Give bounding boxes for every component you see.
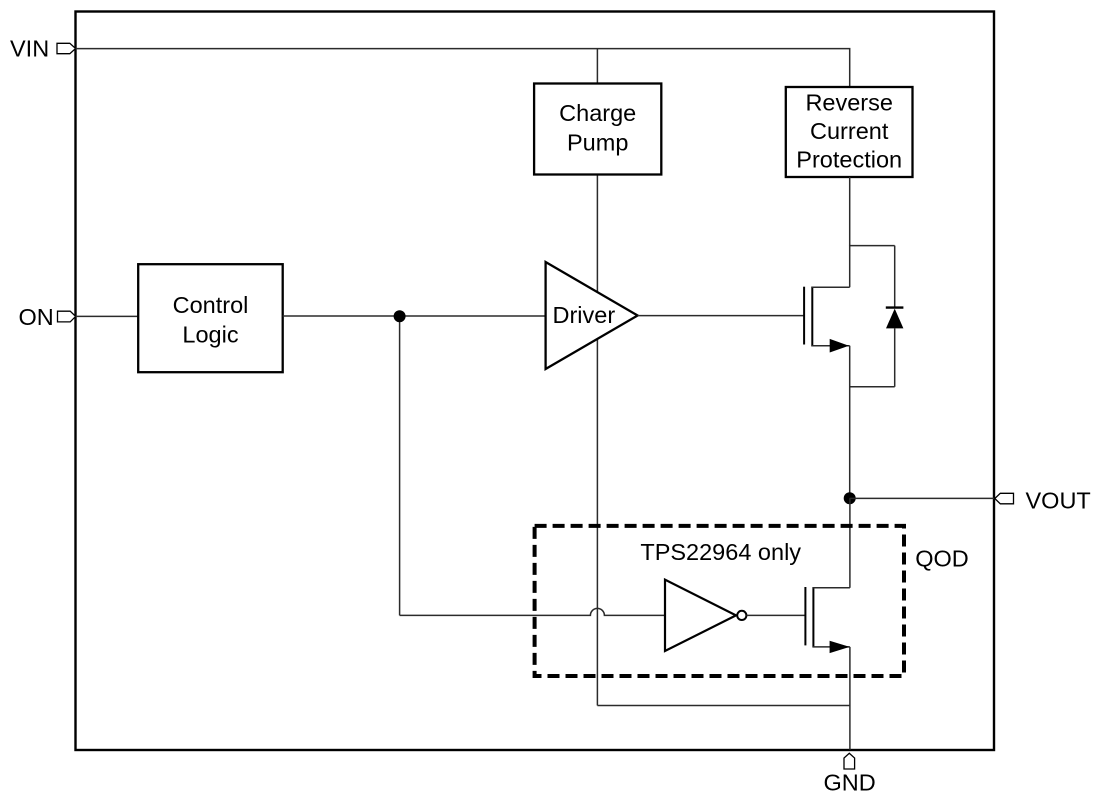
transistor Q1 pass FET	[804, 245, 850, 353]
block Reverse Current Protection	[786, 87, 913, 177]
transistor Q2 QOD FET	[805, 587, 850, 653]
pin ON	[19, 304, 76, 330]
wire charge pump rail down	[596, 175, 598, 706]
diode D1 body diode of Q1	[850, 246, 904, 387]
inverter U2	[665, 580, 746, 651]
op-amp U1 Driver	[546, 262, 638, 369]
wire charge pump feed	[596, 49, 598, 84]
svg-text:Protection: Protection	[796, 147, 902, 173]
wire VOUT node to Q2 drain	[849, 498, 851, 588]
svg-text:Reverse: Reverse	[805, 90, 893, 116]
svg-text:Control: Control	[173, 292, 249, 318]
pin VIN	[10, 36, 76, 62]
wire RCP to Q1 drain	[849, 177, 851, 246]
wire junction branch down	[399, 316, 401, 615]
svg-text:Current: Current	[810, 118, 889, 144]
svg-text:Pump: Pump	[567, 130, 628, 156]
wire VIN rail to RCP	[76, 49, 850, 87]
wire ON to Control Logic	[76, 315, 139, 317]
wire Control Logic to Driver	[283, 315, 546, 317]
block Charge Pump	[534, 84, 661, 175]
pin GND (ground)	[824, 753, 876, 795]
QOD dashed boundary	[535, 526, 904, 676]
svg-text:Charge: Charge	[559, 100, 636, 126]
svg-text:Logic: Logic	[182, 322, 238, 348]
wire Q1 source down to VOUT node	[849, 346, 851, 499]
block Control Logic	[138, 264, 283, 372]
svg-text:GND: GND	[824, 770, 876, 796]
wire Q2 source down to GND	[849, 647, 851, 750]
svg-text:Driver: Driver	[553, 302, 616, 328]
svg-text:VIN: VIN	[10, 36, 49, 62]
svg-text:QOD: QOD	[915, 546, 969, 572]
pin VOUT	[995, 488, 1091, 514]
wire VOUT	[850, 497, 994, 499]
svg-text:ON: ON	[19, 304, 54, 330]
svg-text:TPS22964 only: TPS22964 only	[640, 539, 801, 565]
wire Driver to Q1 gate	[638, 315, 805, 317]
wire inverter output to Q2 gate	[746, 614, 805, 616]
wire branch to inverter with hop over charge pump rail	[400, 608, 665, 615]
IC boundary	[76, 12, 995, 751]
node ON branch junction	[394, 310, 406, 322]
node VOUT junction	[844, 492, 856, 504]
wire charge pump return (bottom)	[597, 705, 850, 707]
svg-text:VOUT: VOUT	[1026, 488, 1091, 514]
